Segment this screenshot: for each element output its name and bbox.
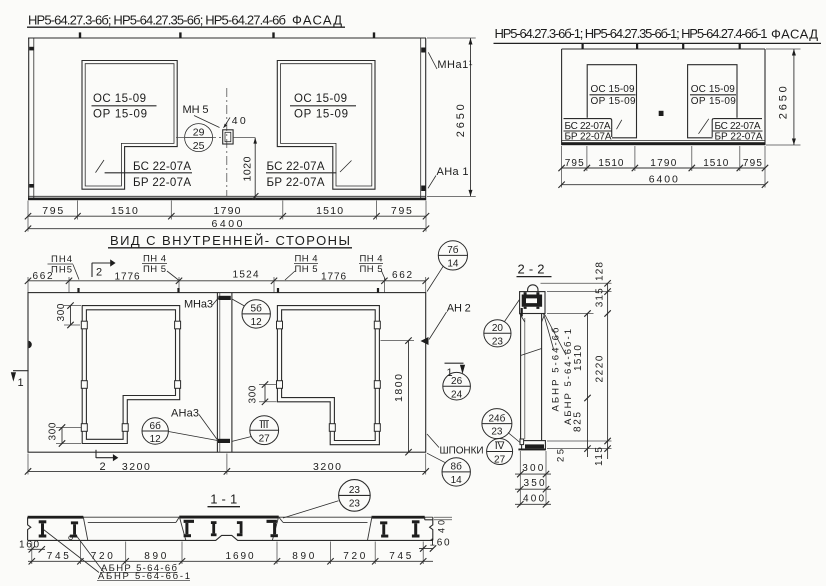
svg-text:2-2: 2-2 <box>518 262 545 277</box>
svg-text:БС 22-07А: БС 22-07А <box>267 161 325 173</box>
svg-text:1020: 1020 <box>242 156 254 181</box>
svg-text:1-1: 1-1 <box>210 492 237 507</box>
svg-text:ФАСАД: ФАСАД <box>292 13 342 28</box>
svg-text:БС 22-07А: БС 22-07А <box>715 121 761 132</box>
svg-text:2: 2 <box>96 267 102 279</box>
svg-text:795: 795 <box>42 205 63 217</box>
svg-text:300: 300 <box>48 422 59 440</box>
svg-text:1524: 1524 <box>233 270 259 281</box>
svg-text:300: 300 <box>522 463 543 474</box>
svg-text:662: 662 <box>392 270 412 281</box>
svg-text:3200: 3200 <box>313 461 341 473</box>
svg-text:300: 300 <box>248 385 259 403</box>
svg-text:3200: 3200 <box>122 461 150 473</box>
svg-text:795: 795 <box>565 158 584 169</box>
svg-text:890: 890 <box>292 551 314 562</box>
svg-text:ПН 4: ПН 4 <box>360 253 383 264</box>
svg-text:160: 160 <box>19 540 39 551</box>
svg-text:23: 23 <box>491 427 503 438</box>
svg-text:ОС 15-09: ОС 15-09 <box>591 84 635 95</box>
svg-text:ПН 5: ПН 5 <box>143 264 166 275</box>
svg-text:БР 22-07А: БР 22-07А <box>565 132 612 143</box>
svg-text:745: 745 <box>389 551 411 562</box>
svg-text:БР 22-07А: БР 22-07А <box>267 177 325 189</box>
svg-text:29: 29 <box>193 127 205 139</box>
svg-text:ОР 15-09: ОР 15-09 <box>691 96 736 107</box>
svg-text:26: 26 <box>451 376 463 387</box>
svg-text:ПН 4: ПН 4 <box>295 253 318 264</box>
svg-text:400: 400 <box>523 493 544 504</box>
svg-text:ОС 15-09: ОС 15-09 <box>691 84 735 95</box>
svg-text:27: 27 <box>494 455 506 466</box>
svg-text:ОР 15-09: ОР 15-09 <box>591 96 636 107</box>
svg-text:ШПОНКИ: ШПОНКИ <box>440 446 484 457</box>
svg-text:890: 890 <box>144 551 166 562</box>
svg-text:НР5-64.27.3-6б; НР5-64.27.35-6: НР5-64.27.3-6б; НР5-64.27.35-6б; НР5-64.… <box>28 13 286 28</box>
svg-text:720: 720 <box>343 551 365 562</box>
svg-text:БС 22-07А: БС 22-07А <box>133 161 191 173</box>
svg-text:825: 825 <box>573 412 584 432</box>
svg-text:14: 14 <box>451 475 463 486</box>
svg-text:1: 1 <box>18 377 24 389</box>
svg-text:ПН5: ПН5 <box>51 265 72 276</box>
svg-text:6400: 6400 <box>649 174 678 186</box>
svg-text:720: 720 <box>91 551 113 562</box>
svg-text:20: 20 <box>492 323 504 334</box>
svg-text:24: 24 <box>451 389 463 400</box>
svg-text:1790: 1790 <box>650 158 676 169</box>
svg-text:7б: 7б <box>447 244 459 256</box>
svg-text:МНа3: МНа3 <box>184 299 213 311</box>
svg-text:ОР 15-09: ОР 15-09 <box>93 109 147 121</box>
svg-text:МН 5: МН 5 <box>183 104 209 116</box>
svg-text:23: 23 <box>349 485 361 496</box>
svg-text:795: 795 <box>391 205 412 217</box>
svg-text:1510: 1510 <box>703 158 728 169</box>
svg-text:IV: IV <box>495 441 505 452</box>
svg-text:АБНР 5-64-6б: АБНР 5-64-6б <box>551 327 562 412</box>
svg-text:1790: 1790 <box>214 205 241 217</box>
svg-text:1510: 1510 <box>111 205 138 217</box>
svg-text:795: 795 <box>743 158 762 169</box>
svg-text:23: 23 <box>349 499 361 510</box>
svg-text:1510: 1510 <box>573 345 584 371</box>
svg-text:НР5-64.27.3-6б-1; НР5-64.27.35: НР5-64.27.3-6б-1; НР5-64.27.35-6б-1; НР5… <box>495 26 768 41</box>
svg-text:1800: 1800 <box>393 374 405 402</box>
svg-text:АНа3: АНа3 <box>171 408 199 420</box>
svg-text:24б: 24б <box>488 412 505 424</box>
svg-text:ПН 4: ПН 4 <box>143 253 166 264</box>
svg-text:БР 22-07А: БР 22-07А <box>715 132 763 143</box>
svg-text:5б: 5б <box>251 303 263 315</box>
svg-text:БС 22-07А: БС 22-07А <box>565 121 611 132</box>
svg-text:115: 115 <box>594 447 605 466</box>
svg-text:ПН 5: ПН 5 <box>295 264 318 275</box>
svg-text:БР 22-07А: БР 22-07А <box>133 177 191 189</box>
svg-text:АБНР 5-64-6б-1: АБНР 5-64-6б-1 <box>563 329 574 425</box>
svg-text:25: 25 <box>193 140 205 152</box>
svg-text:745: 745 <box>47 551 69 562</box>
svg-text:14: 14 <box>447 258 459 269</box>
svg-text:300: 300 <box>56 303 67 321</box>
svg-text:ОР 15-09: ОР 15-09 <box>294 109 348 121</box>
svg-text:23: 23 <box>492 336 504 347</box>
svg-text:АНа 1: АНа 1 <box>437 166 469 178</box>
svg-text:2220: 2220 <box>594 355 605 382</box>
svg-text:12: 12 <box>150 434 162 445</box>
svg-text:315: 315 <box>594 288 605 307</box>
svg-text:МНа1¹: МНа1¹ <box>437 59 472 71</box>
svg-text:1510: 1510 <box>316 205 343 217</box>
svg-text:6б: 6б <box>150 420 162 432</box>
svg-text:ПН 5: ПН 5 <box>360 264 383 275</box>
svg-text:АН 2: АН 2 <box>447 303 471 315</box>
svg-text:ПН4: ПН4 <box>51 254 72 265</box>
svg-text:ВИД С ВНУТРЕННЕЙ- СТОРОНЫ: ВИД С ВНУТРЕННЕЙ- СТОРОНЫ <box>110 233 350 248</box>
svg-text:1510: 1510 <box>598 158 623 169</box>
svg-text:ОС 15-09: ОС 15-09 <box>294 93 347 105</box>
svg-text:160: 160 <box>430 538 450 549</box>
svg-text:1690: 1690 <box>226 551 254 562</box>
svg-text:ФАСАД: ФАСАД <box>771 26 818 41</box>
svg-text:8б: 8б <box>451 461 463 473</box>
svg-text:12: 12 <box>251 317 263 328</box>
svg-text:128: 128 <box>594 262 605 281</box>
svg-text:27: 27 <box>259 434 271 445</box>
svg-text:662: 662 <box>33 271 53 282</box>
svg-text:ОС 15-09: ОС 15-09 <box>93 93 146 105</box>
svg-text:350: 350 <box>524 478 545 489</box>
svg-text:III: III <box>260 420 268 431</box>
